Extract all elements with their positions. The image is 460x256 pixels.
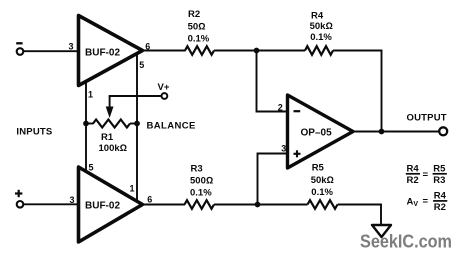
- node junction bottom rail to pin 3: [255, 202, 261, 208]
- wire R1 left stub: [86, 123, 94, 125]
- svg-text:5: 5: [139, 60, 144, 70]
- svg-text:R1: R1: [101, 132, 114, 143]
- svg-text:50Ω: 50Ω: [188, 21, 206, 32]
- svg-text:2: 2: [278, 103, 283, 113]
- wire pin3 branch from bottom node: [258, 154, 288, 205]
- op-amp U3 OP-05: [288, 95, 354, 168]
- svg-text:BUF-02: BUF-02: [85, 48, 120, 59]
- formula Av = R4/R2: [407, 190, 448, 213]
- svg-text:0.1%: 0.1%: [310, 32, 332, 43]
- U3 minus input sign: [294, 110, 301, 112]
- svg-text:OUTPUT: OUTPUT: [407, 113, 447, 124]
- wire R4 to feedback corner: [333, 51, 382, 132]
- svg-text:SeekIC.com: SeekIC.com: [360, 232, 452, 252]
- svg-text:R3: R3: [433, 175, 445, 186]
- svg-text:0.1%: 0.1%: [311, 187, 333, 198]
- R1 value label: [99, 132, 127, 154]
- resistor R4: [305, 46, 333, 55]
- svg-text:R3: R3: [191, 163, 203, 174]
- input terminal plus polarity mark: [15, 190, 22, 197]
- node R1 right junction: [134, 121, 140, 127]
- svg-text:1: 1: [130, 184, 135, 194]
- svg-text:R4: R4: [311, 11, 324, 22]
- svg-text:BUF-02: BUF-02: [85, 201, 120, 212]
- R1 wiper arrow: [106, 96, 114, 118]
- formula R4/R2 = R5/R3: [406, 163, 447, 186]
- input terminal minus circle: [17, 48, 24, 55]
- wire minus input to U1 pin 3: [23, 50, 78, 52]
- svg-text:R2: R2: [407, 175, 419, 186]
- potentiometer R1 body: [93, 120, 130, 128]
- resistor R2: [185, 46, 214, 55]
- svg-text:3: 3: [69, 41, 74, 51]
- svg-text:6: 6: [147, 194, 152, 204]
- wire U2 output to R3: [140, 204, 185, 206]
- node junction top rail to pin 2: [254, 48, 260, 54]
- svg-text:0.1%: 0.1%: [188, 34, 210, 45]
- svg-text:50kΩ: 50kΩ: [310, 21, 333, 32]
- wire R3 to R5: [214, 204, 308, 206]
- svg-text:R5: R5: [433, 163, 446, 174]
- input terminal plus circle: [17, 201, 24, 208]
- svg-text:BALANCE: BALANCE: [147, 121, 196, 132]
- node output junction: [379, 129, 385, 135]
- resistor R5: [308, 200, 338, 209]
- R4 value label: [310, 11, 333, 44]
- ground: [372, 225, 391, 237]
- svg-text:R2: R2: [434, 202, 446, 213]
- svg-text:=: =: [423, 196, 429, 207]
- input terminal minus polarity mark: [16, 42, 22, 44]
- svg-text:1: 1: [88, 89, 93, 99]
- U3 plus input sign: [294, 150, 301, 157]
- svg-text:R5: R5: [312, 163, 325, 174]
- resistor R3: [185, 200, 215, 209]
- wire R5 to ground: [338, 205, 382, 225]
- wire plus input to U2 pin 3: [23, 203, 78, 205]
- svg-text:R4: R4: [434, 190, 447, 201]
- V+ terminal circle: [162, 93, 168, 99]
- svg-text:V+: V+: [158, 82, 170, 93]
- wire pin2 branch from top node: [257, 51, 288, 112]
- wire R1 right stub: [130, 123, 137, 125]
- wire U1 pin1 down to R1 left end and U2 pin5: [85, 81, 87, 172]
- svg-text:=: =: [423, 169, 429, 180]
- svg-text:OP–05: OP–05: [301, 128, 333, 139]
- svg-text:3: 3: [281, 143, 286, 153]
- svg-text:5: 5: [89, 162, 94, 172]
- OUTPUT terminal circle: [439, 127, 447, 135]
- svg-text:3: 3: [70, 195, 75, 205]
- svg-text:INPUTS: INPUTS: [16, 127, 52, 138]
- R5 value label: [311, 163, 334, 198]
- wire R2 to R4: [214, 50, 305, 52]
- wire U1 output to R2: [140, 50, 186, 52]
- svg-text:50kΩ: 50kΩ: [311, 175, 334, 186]
- wire wiper to V+ terminal: [109, 95, 162, 97]
- op-amp U2 BUF-02 (bottom buffer): [79, 167, 143, 242]
- node R1 left junction: [83, 121, 89, 127]
- svg-text:500Ω: 500Ω: [190, 175, 213, 186]
- svg-text:100kΩ: 100kΩ: [99, 143, 127, 154]
- svg-text:0.1%: 0.1%: [190, 188, 212, 199]
- svg-text:R2: R2: [188, 9, 200, 20]
- wire U3 output to OUTPUT terminal: [350, 131, 439, 133]
- op-amp U1 BUF-02 (top buffer): [79, 16, 143, 86]
- wire U1 pin5 down to R1 right end and U2 pin1: [136, 54, 138, 202]
- R3 value label: [190, 163, 213, 198]
- R2 value label: [188, 9, 210, 45]
- svg-text:R4: R4: [407, 163, 420, 174]
